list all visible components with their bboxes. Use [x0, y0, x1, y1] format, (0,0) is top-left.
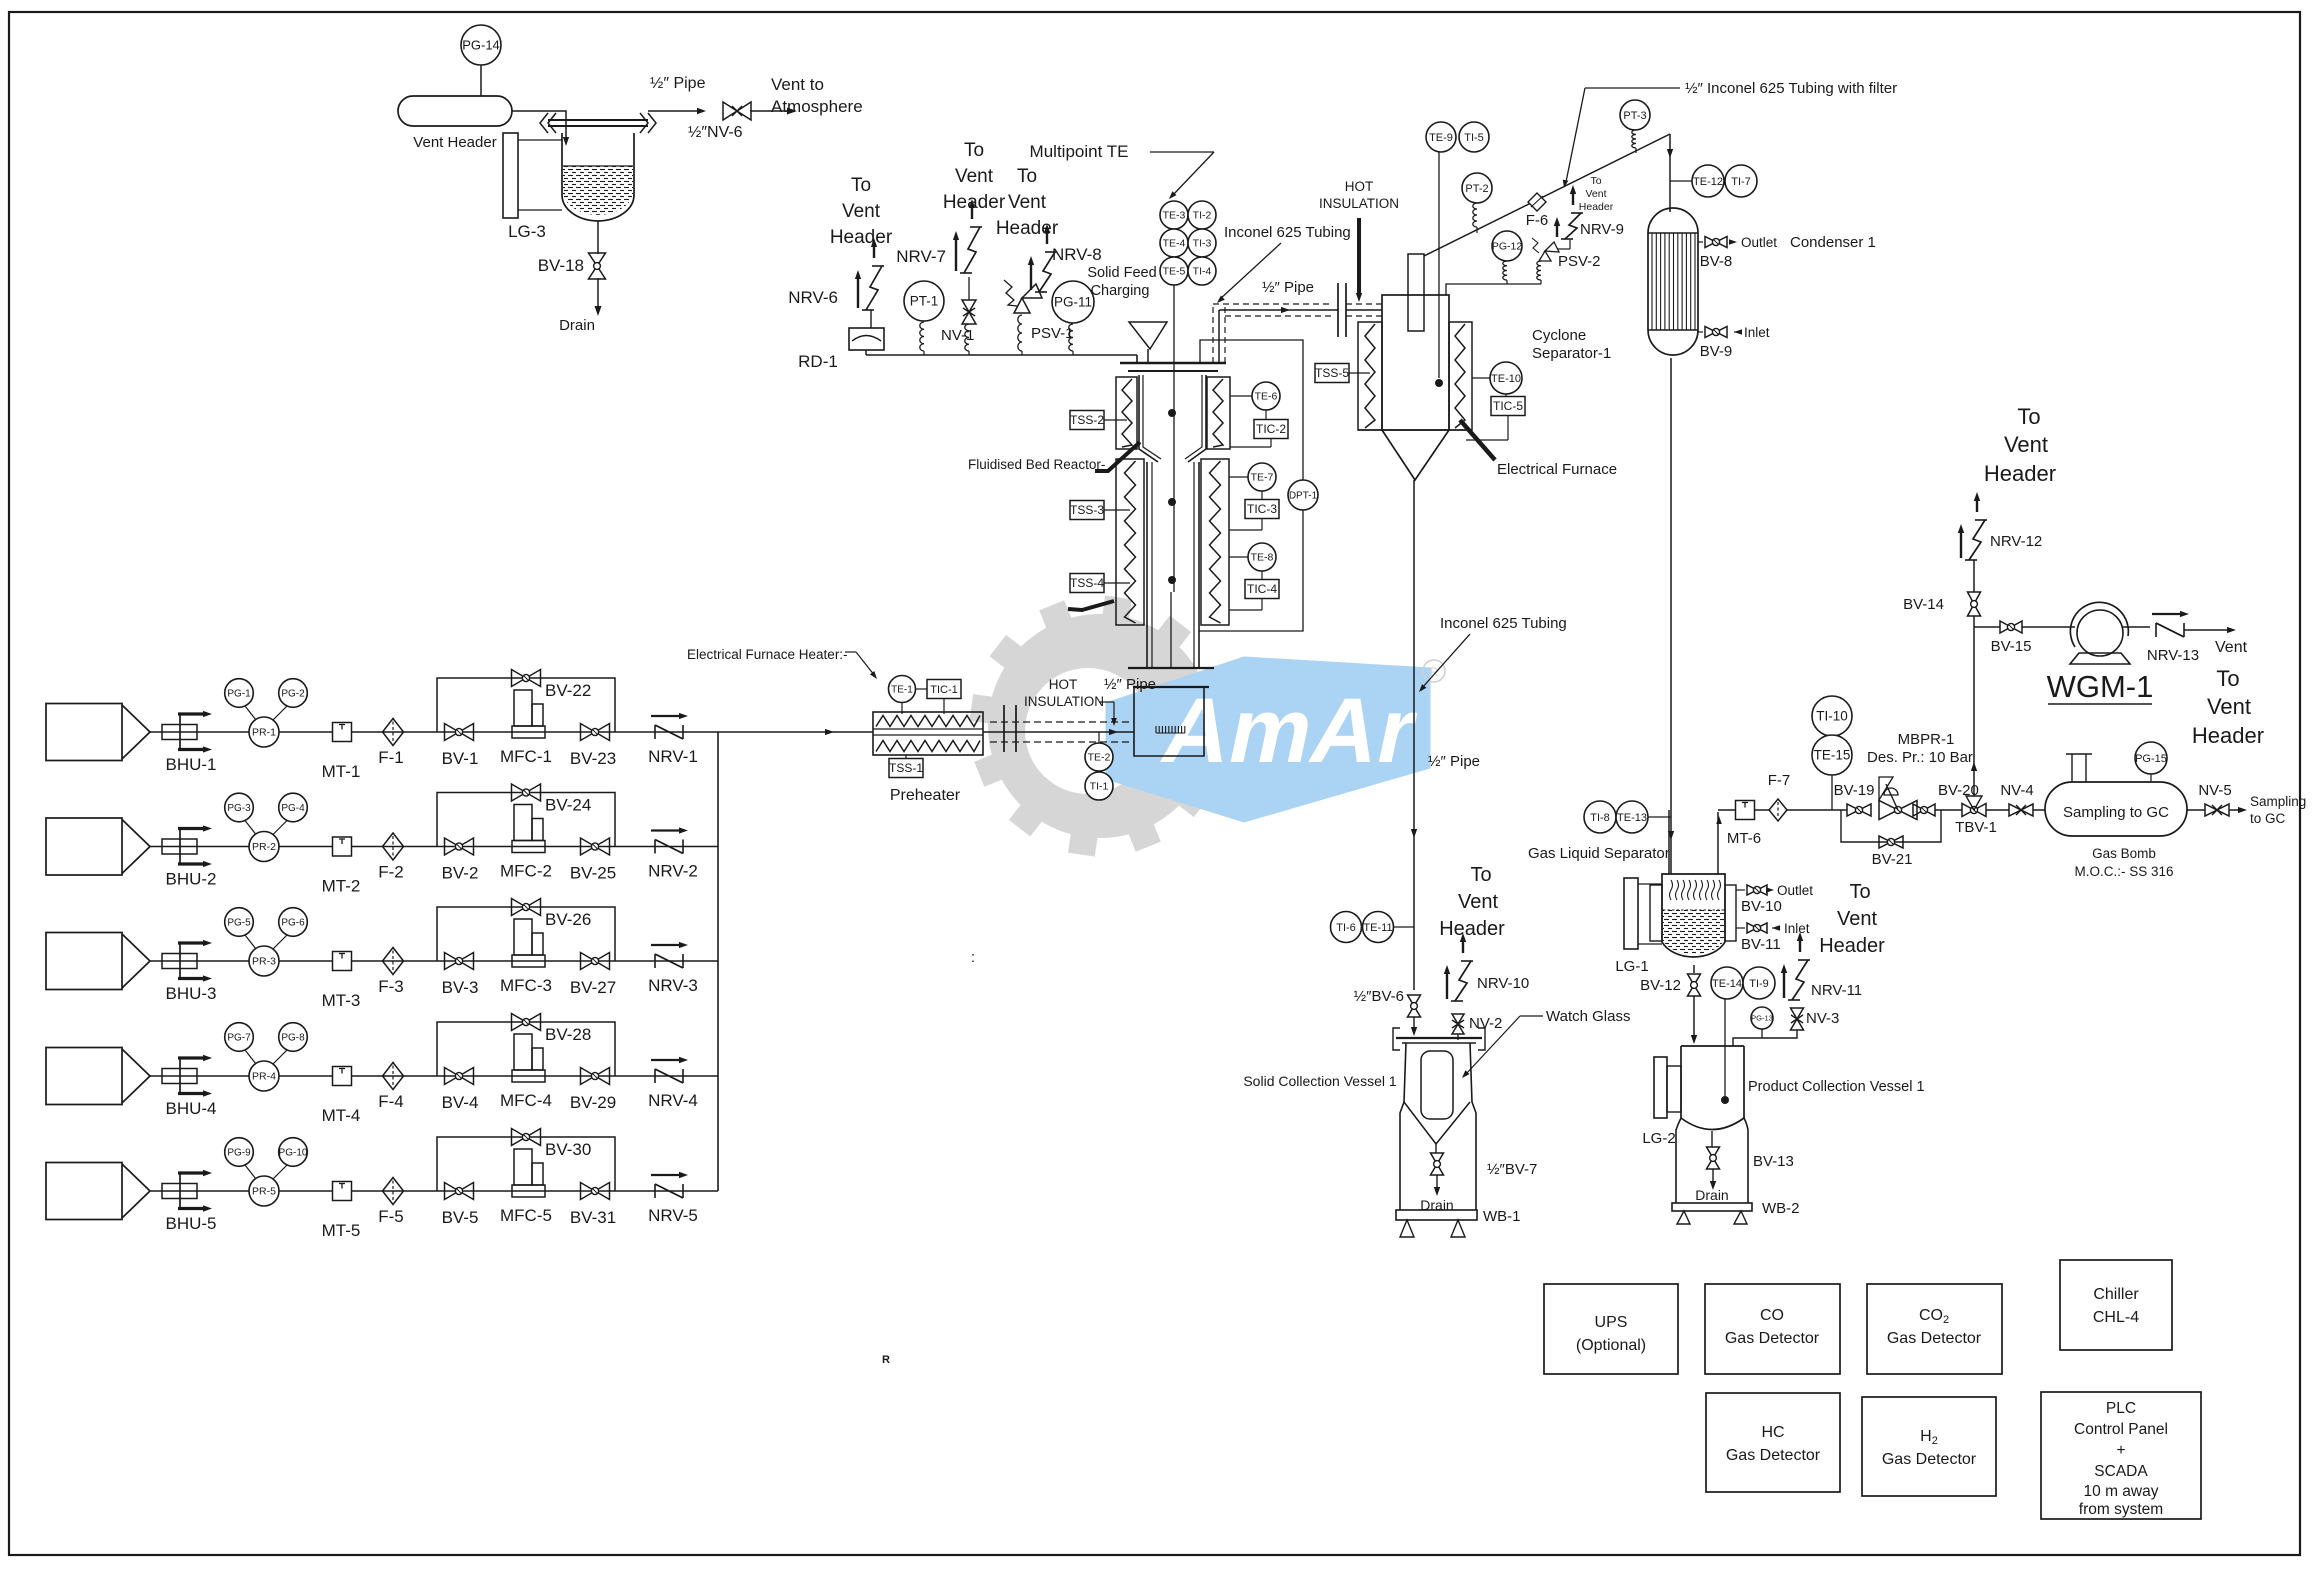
svg-text:BHU-3: BHU-3: [165, 984, 216, 1003]
valve NV-6: [723, 102, 751, 120]
instrument TE-7: [1248, 463, 1276, 491]
leader hot insulation: [1099, 701, 1114, 703]
svg-text:PR-4: PR-4: [252, 1071, 276, 1083]
svg-text:Header: Header: [996, 218, 1059, 239]
check valve NRV-8: [1035, 291, 1047, 293]
svg-text:MFC-1: MFC-1: [500, 747, 552, 766]
separator right jacket: [1725, 885, 1736, 941]
filter F-7: [1769, 799, 1787, 821]
svg-text:Chiller: Chiller: [2093, 1286, 2139, 1303]
instrument TI-7: [1725, 165, 1757, 197]
valve BV-7: [1431, 1153, 1444, 1175]
pipe break after preheater: [1003, 705, 1005, 752]
instrument PT-2: [1462, 173, 1492, 203]
instrument TI-6: [1331, 912, 1362, 943]
instrument PG-5: [225, 908, 254, 937]
purifier BHU-1: [162, 725, 197, 740]
instrument box TIC-1: [927, 680, 961, 699]
svg-text:Inlet: Inlet: [1744, 325, 1770, 340]
svg-text:PG-11: PG-11: [1054, 295, 1092, 310]
instrument box TSS-3: [1070, 501, 1104, 520]
svg-text:TI-9: TI-9: [1749, 978, 1769, 990]
instrument box TSS-2: [1070, 411, 1104, 430]
level gauge LG-1: [1624, 878, 1638, 949]
instrument TI-3: [1188, 229, 1216, 257]
relief valve PSV-1: [1014, 298, 1030, 313]
relief valve PSV-2: [1539, 251, 1551, 261]
svg-text:BV-9: BV-9: [1700, 343, 1733, 360]
regulator PR-2: [249, 832, 279, 862]
svg-text:TIC-5: TIC-5: [1493, 399, 1523, 413]
svg-text:BV-31: BV-31: [570, 1208, 616, 1227]
gas cylinder 1: [46, 704, 122, 761]
svg-text:F-4: F-4: [378, 1092, 404, 1111]
vessel Catch Pot: [562, 133, 634, 221]
svg-text:M.O.C.:- SS 316: M.O.C.:- SS 316: [2074, 864, 2173, 879]
svg-text:DPT-1: DPT-1: [1289, 491, 1318, 502]
instrument box TSS-5: [1315, 364, 1349, 383]
svg-text:WGM-1: WGM-1: [2047, 669, 2154, 704]
purifier BHU-2: [162, 839, 197, 854]
product vessel base WB-2: [1672, 1203, 1752, 1211]
vessel Cyclone Separator-1: [1382, 295, 1449, 430]
svg-text:LG-2: LG-2: [1642, 1130, 1675, 1147]
filter F-5: [383, 1178, 404, 1205]
coil PSV-1: [1018, 315, 1022, 351]
svg-text:Charging: Charging: [1091, 283, 1150, 299]
wire purge header: [866, 354, 1137, 356]
svg-text:MFC-5: MFC-5: [500, 1206, 552, 1225]
wire TE-15 stem: [1831, 775, 1833, 810]
svg-text:BV-24: BV-24: [545, 796, 591, 815]
instrument TE-8: [1248, 543, 1276, 571]
svg-text:BV-22: BV-22: [545, 681, 591, 700]
wire multipoint TE probe: [1173, 285, 1175, 592]
wire PG-14 to vent header: [480, 65, 482, 96]
valve BV-18: [589, 253, 606, 279]
svg-text:TIC-1: TIC-1: [930, 684, 958, 696]
leader watch glass: [1520, 1015, 1543, 1017]
reactor top flange: [1120, 362, 1226, 364]
check valve NRV-9: [1561, 238, 1573, 240]
valve BV-12: [1688, 974, 1701, 996]
svg-text:TE-14: TE-14: [1712, 978, 1742, 990]
blower WGM-1: [2070, 602, 2128, 647]
wire feed line 2: [150, 846, 718, 848]
svg-text:TE-1: TE-1: [891, 685, 913, 696]
instrument TE-10: [1490, 362, 1522, 394]
svg-text:BV-26: BV-26: [545, 910, 591, 929]
svg-text:Header: Header: [830, 227, 893, 248]
svg-text:TE-5: TE-5: [1163, 266, 1186, 278]
svg-text:TSS-1: TSS-1: [889, 761, 923, 775]
svg-text:Vent: Vent: [955, 166, 994, 187]
instrument TE-3: [1160, 201, 1188, 229]
wire TE-14 probe: [1724, 999, 1726, 1098]
cyclone heater right: [1449, 322, 1472, 430]
svg-text:BV-4: BV-4: [442, 1093, 479, 1112]
pipe preheater to reactor: [983, 731, 1134, 733]
instrument TE-15: [1812, 735, 1852, 775]
instrument TE-11: [1363, 912, 1394, 943]
svg-text:Gas Detector: Gas Detector: [1725, 1330, 1820, 1347]
svg-text:NV-1: NV-1: [941, 327, 974, 344]
svg-text:BV-19: BV-19: [1834, 782, 1875, 799]
svg-text:Multipoint TE: Multipoint TE: [1030, 142, 1129, 161]
svg-text:BV-11: BV-11: [1741, 936, 1781, 953]
box PLC Control Panel: [2041, 1392, 2201, 1519]
svg-text:Vent: Vent: [2207, 694, 2251, 719]
svg-text:To: To: [851, 175, 871, 196]
instrument TE-12: [1692, 165, 1724, 197]
valve BV-3: [445, 953, 474, 970]
valve BV-30: [512, 1129, 541, 1146]
catch pot top flange: [548, 119, 648, 121]
regulator MBPR-1: [1879, 801, 1917, 820]
svg-text:MFC-3: MFC-3: [500, 976, 552, 995]
svg-text:Product Collection Vessel 1: Product Collection Vessel 1: [1748, 1079, 1925, 1095]
svg-text:Outlet: Outlet: [1741, 235, 1777, 250]
instrument TE-1: [889, 676, 916, 703]
svg-text:PG-7: PG-7: [227, 1033, 251, 1044]
instrument DPT-1: [1288, 480, 1318, 510]
svg-text:NRV-9: NRV-9: [1580, 221, 1624, 238]
check valve NRV-3: [654, 954, 656, 968]
svg-text:(Optional): (Optional): [1576, 1337, 1646, 1354]
level gauge LG-2: [1654, 1057, 1667, 1118]
svg-text:TIC-2: TIC-2: [1256, 422, 1286, 436]
svg-text:BV-27: BV-27: [570, 978, 616, 997]
svg-text:UPS: UPS: [1595, 1314, 1628, 1331]
rupture disc RD-1: [849, 328, 884, 350]
wire vent header to catch pot: [512, 111, 566, 142]
instrument TI-2: [1188, 201, 1216, 229]
svg-text:PR-1: PR-1: [252, 727, 276, 739]
check valve NRV-2: [654, 840, 656, 854]
svg-text:½″BV-7: ½″BV-7: [1487, 1161, 1537, 1178]
svg-text:BV-21: BV-21: [1872, 851, 1913, 868]
svg-text:PSV-1: PSV-1: [1031, 325, 1074, 342]
instrument PG-4: [279, 793, 308, 822]
box H2 Gas Detector: [1862, 1397, 1996, 1496]
svg-text:MT-1: MT-1: [322, 762, 361, 781]
svg-text:PG-15: PG-15: [2135, 753, 2167, 765]
svg-text:Outlet: Outlet: [1777, 883, 1813, 898]
wire MBPR bypass: [1841, 810, 1941, 842]
svg-text:BV-10: BV-10: [1741, 898, 1782, 915]
coil PSV-2: [1537, 261, 1541, 280]
svg-text:Header: Header: [2192, 723, 2264, 748]
check valve NRV-1: [654, 725, 656, 739]
wire F-7 to BV-19: [1787, 809, 1847, 811]
pipe union before cyclone: [1337, 283, 1339, 337]
svg-text:TIC-3: TIC-3: [1247, 502, 1277, 516]
pipe reactor to cyclone dashed: [1218, 310, 1220, 363]
svg-text:F-6: F-6: [1526, 212, 1549, 229]
box CO2 Gas Detector: [1867, 1284, 2002, 1374]
svg-text:PG-1: PG-1: [227, 689, 251, 700]
wire NV-3 to vessel: [1733, 1030, 1797, 1046]
wire feed line 4: [150, 1075, 718, 1077]
valve BV-19: [1847, 804, 1871, 816]
svg-text:TE-6: TE-6: [1255, 391, 1278, 403]
svg-text:BHU-4: BHU-4: [165, 1099, 216, 1118]
svg-text:To: To: [1470, 864, 1491, 886]
check valve NRV-4: [654, 1069, 656, 1083]
valve BV-5: [445, 1183, 474, 1200]
vessel Gas Liquid Separator: [1662, 874, 1725, 957]
instrument TI-10: [1812, 696, 1852, 736]
coil PT-3: [1632, 130, 1636, 148]
svg-text:TE-11: TE-11: [1363, 922, 1392, 934]
wire cyclone downpipe: [1413, 480, 1415, 990]
valve BV-28: [512, 1014, 541, 1031]
svg-text:NRV-2: NRV-2: [648, 862, 698, 881]
reactor lower heater right: [1201, 459, 1229, 625]
filter F-4: [383, 1063, 404, 1090]
gas cylinder 2: [46, 818, 122, 875]
wire bypass line 1: [437, 678, 615, 732]
svg-text:MFC-4: MFC-4: [500, 1091, 552, 1110]
svg-text:Gas Detector: Gas Detector: [1882, 1451, 1977, 1468]
thermowell dots: [1169, 410, 1176, 417]
valve BV-10: [1736, 889, 1745, 891]
svg-text:To: To: [2216, 666, 2239, 691]
wire bypass line 2: [437, 793, 615, 847]
svg-text:TE-8: TE-8: [1251, 552, 1274, 564]
valve BV-6: [1408, 995, 1421, 1017]
watermark registered mark: [1423, 660, 1445, 682]
leader electrical furnace heater: [845, 651, 856, 653]
svg-text:10 m away: 10 m away: [2084, 1483, 2159, 1500]
svg-text:BV-2: BV-2: [442, 864, 479, 883]
controller MFC-4: [512, 1070, 545, 1082]
svg-text:Fluidised Bed Reactor-: Fluidised Bed Reactor-: [968, 457, 1105, 472]
watermark AmAr banner: [1106, 657, 1430, 822]
svg-text:MT-3: MT-3: [322, 991, 361, 1010]
instrument TE-5: [1160, 257, 1188, 285]
svg-text:WB-1: WB-1: [1483, 1208, 1521, 1225]
svg-text:AmAr: AmAr: [1154, 679, 1426, 782]
wire PG-13 stem: [1761, 1029, 1763, 1038]
svg-text:TSS-4: TSS-4: [1070, 576, 1104, 590]
svg-text:CHL-4: CHL-4: [2093, 1309, 2139, 1326]
separator liquid: [1663, 910, 1724, 954]
regulator PR-4: [249, 1061, 279, 1091]
svg-text:SCADA: SCADA: [2094, 1463, 2148, 1480]
instrument TE-6: [1252, 382, 1280, 410]
svg-text:Header: Header: [1439, 918, 1505, 940]
wire RD-1 to purge header: [865, 350, 867, 355]
svg-text:Vent: Vent: [842, 201, 881, 222]
svg-text:MT-5: MT-5: [322, 1221, 361, 1240]
wire solid drain arrow: [1436, 1175, 1438, 1188]
wire catch pot vent pipe: [648, 110, 700, 112]
valve BV-11: [1736, 927, 1745, 929]
svg-text:Vent: Vent: [2215, 639, 2248, 656]
gas bomb nozzle: [2071, 754, 2073, 782]
wire vent out: [2184, 629, 2228, 631]
wire to atmosphere: [750, 110, 790, 112]
svg-text:Sampling to GC: Sampling to GC: [2063, 804, 2169, 821]
svg-text:TI-3: TI-3: [1193, 238, 1212, 250]
valve NV-1: [968, 277, 970, 300]
svg-text:Watch Glass: Watch Glass: [1546, 1008, 1630, 1025]
gas cylinder 4: [46, 1048, 122, 1105]
wire cyclone outlet diagonal: [1424, 134, 1670, 256]
valve BV-24: [512, 784, 541, 801]
wire bypass line 4: [437, 1022, 615, 1076]
leader hot insulation cyclone: [1357, 218, 1361, 294]
svg-text:NRV-8: NRV-8: [1052, 245, 1102, 264]
instrument box TIC-5: [1491, 397, 1525, 416]
wire solid vessel drain line: [1435, 1144, 1437, 1153]
valve BV-15: [2000, 621, 2022, 633]
svg-text:TSS-3: TSS-3: [1070, 503, 1104, 517]
svg-text:To: To: [964, 140, 984, 161]
svg-text:Vent: Vent: [1837, 908, 1877, 930]
instrument PT-3: [1620, 100, 1650, 130]
svg-text:TI-4: TI-4: [1193, 266, 1212, 278]
svg-text:TI-7: TI-7: [1731, 176, 1751, 188]
svg-text:½″ Inconel 625 Tubing with fil: ½″ Inconel 625 Tubing with filter: [1685, 80, 1897, 97]
svg-text:BV-1: BV-1: [442, 749, 479, 768]
wire condenser to separator: [1670, 358, 1672, 874]
svg-text:WB-2: WB-2: [1762, 1200, 1800, 1217]
valve BV-1: [445, 724, 474, 741]
svg-text:TI-8: TI-8: [1590, 812, 1610, 824]
svg-text:TI-6: TI-6: [1336, 922, 1356, 934]
leader tubing with filter: [1585, 87, 1680, 89]
svg-text:TE-2: TE-2: [1088, 752, 1111, 764]
check valve NRV-13: [2155, 623, 2157, 637]
wire reactor center bottom: [1170, 592, 1172, 668]
wire separator drain: [1693, 965, 1695, 973]
svg-text:Cyclone: Cyclone: [1532, 327, 1586, 344]
svg-text:TE-4: TE-4: [1163, 238, 1186, 250]
reactor bottom section: [1134, 687, 1204, 756]
vessel Condenser 1: [1648, 208, 1698, 355]
svg-text:NRV-5: NRV-5: [648, 1206, 698, 1225]
svg-text:BV-5: BV-5: [442, 1208, 479, 1227]
instrument TI-9: [1743, 967, 1775, 999]
valve BV-9: [1698, 331, 1703, 333]
valve BV-20: [1913, 804, 1935, 816]
controller MFC-2: [512, 841, 545, 853]
svg-text:PG-5: PG-5: [227, 918, 251, 929]
wire drain arrow: [597, 278, 599, 308]
purifier BHU-4: [162, 1069, 197, 1084]
svg-text:TE-3: TE-3: [1163, 210, 1186, 222]
svg-text:Header: Header: [943, 192, 1006, 213]
svg-text:NRV-10: NRV-10: [1477, 975, 1529, 992]
svg-text:½″ Pipe: ½″ Pipe: [1104, 676, 1156, 693]
svg-text:To: To: [1849, 881, 1870, 903]
svg-text:TE-15: TE-15: [1814, 748, 1851, 763]
moisture trap MT-3: [333, 952, 352, 971]
svg-text:Preheater: Preheater: [890, 787, 961, 804]
valve NV-5: [2187, 809, 2205, 811]
check valve NRV-10: [1451, 1000, 1463, 1002]
valve BV-13: [1711, 1131, 1713, 1147]
separator nozzle left: [1668, 810, 1670, 874]
svg-text:TI-5: TI-5: [1464, 132, 1484, 144]
valve NV-3: [1791, 1008, 1804, 1030]
instrument PG-10: [279, 1138, 308, 1167]
svg-text:Vent to: Vent to: [771, 75, 824, 94]
funnel solid feed: [1129, 322, 1167, 349]
coil PT-2: [1473, 203, 1477, 227]
svg-text:F-5: F-5: [378, 1207, 404, 1226]
svg-text:F-3: F-3: [378, 977, 404, 996]
instrument PG-11: [1052, 281, 1094, 323]
valve BV-22: [512, 670, 541, 687]
wire BV-14 junction to BV-15: [1974, 626, 2000, 628]
coil PG-11: [1069, 324, 1073, 351]
catch pot liquid: [563, 166, 633, 215]
check valve NRV-5: [654, 1184, 656, 1198]
solid vessel base WB-1: [1396, 1210, 1477, 1220]
svg-text:Header: Header: [1579, 201, 1614, 213]
instrument TE-13: [1616, 801, 1648, 833]
svg-text:PR-5: PR-5: [252, 1186, 276, 1198]
valve BV-21: [1879, 836, 1903, 848]
vessel Vent Header: [398, 96, 512, 126]
wire feed line 1: [150, 731, 718, 733]
filter F-3: [383, 948, 404, 975]
svg-text:F-7: F-7: [1768, 772, 1791, 789]
instrument TI-4: [1188, 257, 1216, 285]
valve BV-27: [581, 953, 610, 970]
svg-text:PT-1: PT-1: [910, 294, 939, 309]
svg-text::: :: [971, 949, 975, 966]
svg-text:F-2: F-2: [378, 863, 404, 882]
instrument PT-1: [904, 281, 944, 321]
svg-text:TI-1: TI-1: [1090, 781, 1109, 793]
valve BV-23: [581, 724, 610, 741]
svg-text:To: To: [1017, 166, 1037, 187]
svg-text:NV-4: NV-4: [2000, 782, 2033, 799]
svg-text:Atmosphere: Atmosphere: [771, 97, 863, 116]
svg-text:LG-3: LG-3: [508, 222, 546, 241]
valve BV-8: [1698, 241, 1703, 243]
box Chiller CHL-4: [2060, 1260, 2172, 1350]
svg-text:MT-4: MT-4: [322, 1106, 361, 1125]
svg-text:BHU-2: BHU-2: [165, 870, 216, 889]
valve BV-25: [581, 838, 610, 855]
wire product drain: [1712, 1169, 1714, 1184]
moisture trap MT-5: [333, 1182, 352, 1201]
svg-text:BV-14: BV-14: [1903, 596, 1944, 613]
instrument TE-4: [1160, 229, 1188, 257]
svg-text:CO: CO: [1760, 1307, 1784, 1324]
valve BV-29: [581, 1068, 610, 1085]
instrument TI-1: [1085, 772, 1113, 800]
svg-text:Gas Bomb: Gas Bomb: [2092, 846, 2156, 861]
svg-text:Vent: Vent: [1008, 192, 1047, 213]
svg-text:TE-12: TE-12: [1693, 176, 1723, 188]
svg-text:PG-10: PG-10: [279, 1148, 308, 1159]
wire BV-20 to TBV-1: [1935, 809, 1962, 811]
svg-text:Inlet: Inlet: [1784, 921, 1810, 936]
wire BV-6 to vessel: [1413, 1017, 1415, 1030]
svg-text:Drain: Drain: [1695, 1187, 1728, 1203]
reactor distributor: [1155, 726, 1157, 733]
wire bypass line 5: [437, 1137, 615, 1191]
instrument PG-8: [279, 1023, 308, 1052]
svg-text:BV-18: BV-18: [538, 256, 584, 275]
svg-text:BV-15: BV-15: [1991, 638, 2032, 655]
